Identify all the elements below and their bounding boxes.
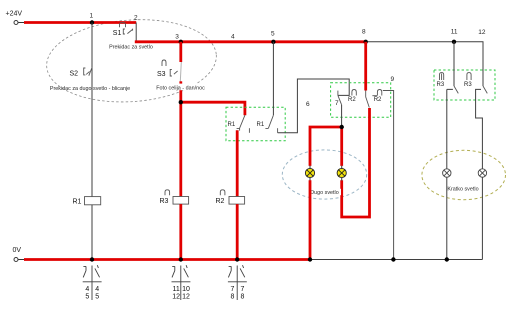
svg-text:7: 7 [335,100,339,107]
wire 0V rail red segment [24,258,310,261]
switch S2 blade [89,67,92,76]
wire rail node8 to node12 [366,42,483,86]
wire lamp E3 to 0V rail [446,177,448,259]
relay coil R2 [229,197,245,205]
svg-text:12: 12 [478,29,486,36]
wire node1 to S2 [91,23,93,197]
lamp E3 Kratko svetlo (off) [443,169,451,177]
relay contacts R1 group box [226,107,285,141]
junction lamp E1 on 0V [308,257,312,261]
junction lamp E3 on 0V [445,257,449,261]
wire node5 to R1 right contact [272,42,274,115]
relay coil R3 [173,197,189,205]
switch S1 blade tick [127,29,132,34]
node 1 [90,20,94,24]
text Dugo svetlo [308,189,341,195]
contact R2 left solenoid glyph [352,90,356,96]
svg-text:7: 7 [240,286,244,293]
svg-text:S2: S2 [70,71,79,78]
relay coil R1 [85,197,101,205]
svg-text:8: 8 [362,29,366,36]
svg-text:9: 9 [391,76,395,83]
wire 0V rail right [310,259,482,261]
switch S3 blade [180,62,181,82]
wire node A to R1 contact (energized) [181,102,245,115]
svg-text:R2: R2 [374,97,382,103]
ellipse Dugo svetlo group [282,150,366,199]
contact R1 left blade [237,115,245,130]
contact R3 right solenoid glyph [467,73,471,80]
switch S1 actuator bracket [123,29,125,34]
wire 9 from R2 contact to 0V rail [383,91,394,260]
wire R1 contact to R2 coil (energized) [236,130,239,196]
wire node A to R3 coil (energized) [179,102,182,196]
coil R2 solenoid glyph [220,190,225,196]
switch S3 actuator bracket [170,69,172,76]
wire node8 to R2 right contact (energized) [364,42,367,91]
junction R2 column on 0V [235,257,239,261]
terminal +24V [14,21,18,25]
wire R2 coil to 0V rail (energized) [236,204,239,259]
lamp E1 E2 top terminal stubs [310,166,342,169]
contact R2 left blade [338,95,342,104]
switch S2 blade tick [86,71,89,74]
switch S3 blade tick [174,71,178,74]
svg-text:Foto celija - dan/noc: Foto celija - dan/noc [156,86,205,92]
svg-text:R3: R3 [464,82,472,88]
wire +24V rail red segment [24,21,136,24]
contact mirror table R3 [172,265,191,300]
svg-text:R3: R3 [437,82,445,88]
relay contacts R3 group box [434,70,495,100]
svg-text:11: 11 [172,286,179,293]
junction R3 column on 0V [179,257,183,261]
contact R1 right open terminal tick [277,128,279,133]
contact R3 right blade [483,86,487,93]
svg-text:8: 8 [240,293,244,300]
svg-text:10: 10 [182,286,190,293]
wire lamp E1 to 0V rail (energized) [310,177,342,180]
wire S3 to node A (energized) [179,81,182,102]
svg-text:5: 5 [85,293,89,300]
lamp E2 Dugo svetlo (lit) [337,168,346,177]
wire node11 to R3 left contact [453,42,455,86]
text Foto celija - dan/noc [155,84,207,91]
wire node2 drop after S1 [135,23,137,42]
contact R2 right fixed terminal tick [372,95,377,97]
wire 0V rail (energized) [18,259,24,261]
node 5 [271,40,275,44]
contact R3 left output [447,89,453,168]
contact R3 right output [476,89,483,168]
svg-text:Prekidac za svetlo: Prekidac za svetlo [109,45,153,51]
svg-text:2: 2 [134,15,138,22]
wire +24V rail (energized) [18,22,24,24]
node A junction [179,100,183,104]
contact R2 right blade [366,91,370,108]
svg-text:Dugo svetlo: Dugo svetlo [310,190,338,196]
wire R1 coil to 0V rail [91,205,93,260]
wire lamp E1 to 0V rail red [309,180,312,259]
contact R1 right blade [265,115,273,128]
svg-text:R2: R2 [216,198,225,205]
svg-text:R1: R1 [73,198,82,205]
wire 6 from R1 contact to R2 contact [278,79,350,133]
ellipse Kratko svetlo group [422,150,506,199]
junction wire9 on 0V [391,257,395,261]
svg-text:R1: R1 [257,122,265,128]
svg-text:R2: R2 [348,97,356,103]
svg-text:3: 3 [175,34,179,41]
svg-text:+24V: +24V [6,10,23,17]
node 8 [364,40,368,44]
switch S1 detent glyph [120,23,126,28]
contact mirror table R2 [228,265,247,300]
svg-text:5: 5 [271,31,275,38]
contact mirror table R1 [83,265,102,300]
svg-text:4: 4 [231,34,235,41]
svg-text:R3: R3 [160,198,169,205]
svg-text:5: 5 [95,293,99,300]
wire rail node3 to node8 (energized) [135,40,366,43]
contact R1 left open terminal tick [248,128,250,133]
node 3 [179,40,183,44]
svg-text:12: 12 [172,293,180,300]
svg-text:11: 11 [451,29,458,36]
ellipse group S1 S2 S3 [44,14,219,107]
switch S3 detent glyph [162,60,166,66]
lamp E1 Dugo svetlo (lit) [305,168,314,177]
svg-text:S3: S3 [157,71,166,78]
svg-text:0V: 0V [13,247,22,254]
coil R3 solenoid glyph [165,190,170,196]
wire node3 to S3 (energized) [179,42,182,62]
relay contacts R2 group box [331,83,391,118]
svg-text:4: 4 [95,286,99,293]
svg-text:S1: S1 [113,30,122,37]
contact R2 right solenoid glyph [377,90,381,96]
junction R1 column on 0V [90,257,94,261]
svg-text:12: 12 [182,293,190,300]
svg-text:4: 4 [85,286,89,293]
svg-text:Kratko svetlo: Kratko svetlo [447,187,478,193]
contact R3 left solenoid glyph [440,73,444,80]
svg-text:Prekidac za dugo svetlo - blic: Prekidac za dugo svetlo - blicanje [50,86,130,92]
svg-text:R1: R1 [228,122,236,128]
contact R2 left fixed stub [337,91,339,96]
wire lamp junction (energized) [310,127,342,166]
wire R2 left contact to lamp node [341,105,343,127]
node lamp feed junction [340,125,344,129]
switch S2 actuator bracket [84,68,86,75]
svg-text:8: 8 [231,293,235,300]
wire R2 right contact to lamp E2 (energized) [342,108,370,217]
svg-text:6: 6 [306,101,310,108]
contact R3 left blade [454,86,458,93]
node 11 [452,40,456,44]
lamp E4 Kratko svetlo (off) [478,169,486,177]
wire R3 coil to 0V rail (energized) [179,204,182,259]
wire lamp E4 to 0V rail [481,177,483,259]
svg-text:1: 1 [90,13,94,20]
terminal 0V [14,258,18,262]
svg-text:7: 7 [231,286,235,293]
